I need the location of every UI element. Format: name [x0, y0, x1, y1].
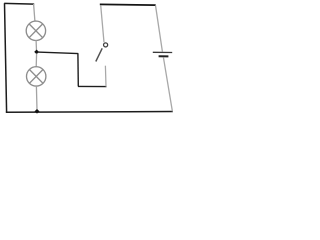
switch S1 lever — [96, 48, 102, 61]
node junction dot lower — [35, 109, 40, 114]
battery B1 negative plate (short thick) — [159, 55, 169, 57]
wire junction to switch: vertical — [77, 53, 79, 86]
wire top-right horizontal — [100, 3, 156, 6]
wire switch S1 top lead — [101, 5, 104, 42]
lamp L1 — [26, 21, 45, 40]
wire junction to switch: horizontal — [38, 52, 79, 54]
wire switch S1 bottom lead — [104, 66, 107, 87]
switch S1 pivot contact — [104, 43, 108, 47]
wire bottom horizontal — [6, 111, 173, 114]
wire lamp L1 bottom lead — [35, 41, 37, 51]
battery B1 positive plate (long) — [153, 51, 172, 53]
wire top-left horizontal — [4, 2, 34, 5]
wire battery B1 top lead — [156, 5, 163, 51]
wire left vertical — [5, 3, 7, 112]
wire junction to switch: lower horizontal — [78, 85, 107, 87]
node junction dot upper — [34, 50, 39, 55]
wire lamp L2 top lead — [35, 54, 37, 67]
lamp L2 — [27, 67, 46, 86]
wire lamp L2 bottom lead — [35, 86, 38, 110]
wire battery B1 bottom lead — [163, 57, 172, 111]
wire lamp L1 top lead — [34, 4, 35, 21]
